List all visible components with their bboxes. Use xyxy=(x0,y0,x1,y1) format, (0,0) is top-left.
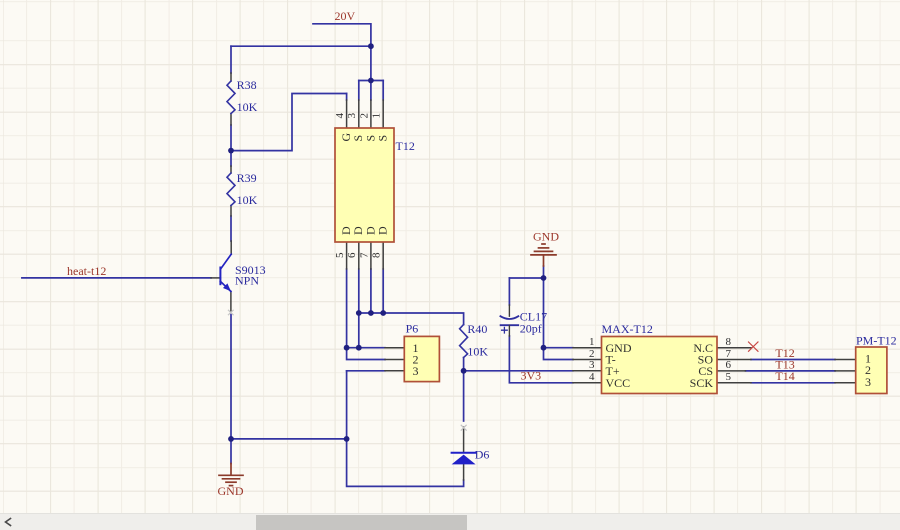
svg-text:4: 4 xyxy=(589,371,595,383)
svg-text:3: 3 xyxy=(346,113,358,119)
svg-text:5: 5 xyxy=(334,252,346,258)
svg-text:10K: 10K xyxy=(467,345,488,359)
svg-text:20pf: 20pf xyxy=(520,322,542,336)
svg-text:5: 5 xyxy=(726,371,732,383)
svg-text:GND: GND xyxy=(533,230,559,244)
svg-text:4: 4 xyxy=(334,113,346,119)
svg-text:10K: 10K xyxy=(237,193,258,207)
svg-text:heat-t12: heat-t12 xyxy=(67,264,106,278)
svg-text:T14: T14 xyxy=(775,369,794,383)
svg-text:R40: R40 xyxy=(467,322,487,336)
svg-text:D6: D6 xyxy=(475,448,490,462)
svg-text:NPN: NPN xyxy=(235,274,259,288)
svg-text:GND: GND xyxy=(218,484,244,498)
svg-text:R38: R38 xyxy=(237,78,257,92)
svg-text:6: 6 xyxy=(726,359,732,371)
svg-text:2: 2 xyxy=(358,113,370,119)
svg-text:10K: 10K xyxy=(237,100,258,114)
svg-text:20V: 20V xyxy=(335,9,356,23)
svg-text:3: 3 xyxy=(413,364,419,378)
svg-text:3: 3 xyxy=(589,359,595,371)
svg-text:2: 2 xyxy=(589,348,595,360)
svg-text:PM-T12: PM-T12 xyxy=(856,334,897,348)
svg-text:8: 8 xyxy=(726,336,732,348)
svg-text:VCC: VCC xyxy=(606,376,631,390)
svg-text:MAX-T12: MAX-T12 xyxy=(602,322,653,336)
svg-text:SCK: SCK xyxy=(690,376,714,390)
svg-text:8: 8 xyxy=(371,252,383,258)
svg-text:D: D xyxy=(376,226,390,235)
svg-text:T12: T12 xyxy=(396,139,415,153)
svg-text:6: 6 xyxy=(346,252,358,258)
svg-text:7: 7 xyxy=(726,348,732,360)
svg-text:3V3: 3V3 xyxy=(521,369,542,383)
svg-text:1: 1 xyxy=(371,113,383,119)
svg-text:S: S xyxy=(376,135,390,142)
svg-text:1: 1 xyxy=(589,336,595,348)
svg-text:P6: P6 xyxy=(406,322,419,336)
svg-text:R39: R39 xyxy=(237,171,257,185)
svg-text:3: 3 xyxy=(865,375,871,389)
svg-text:7: 7 xyxy=(358,252,370,258)
